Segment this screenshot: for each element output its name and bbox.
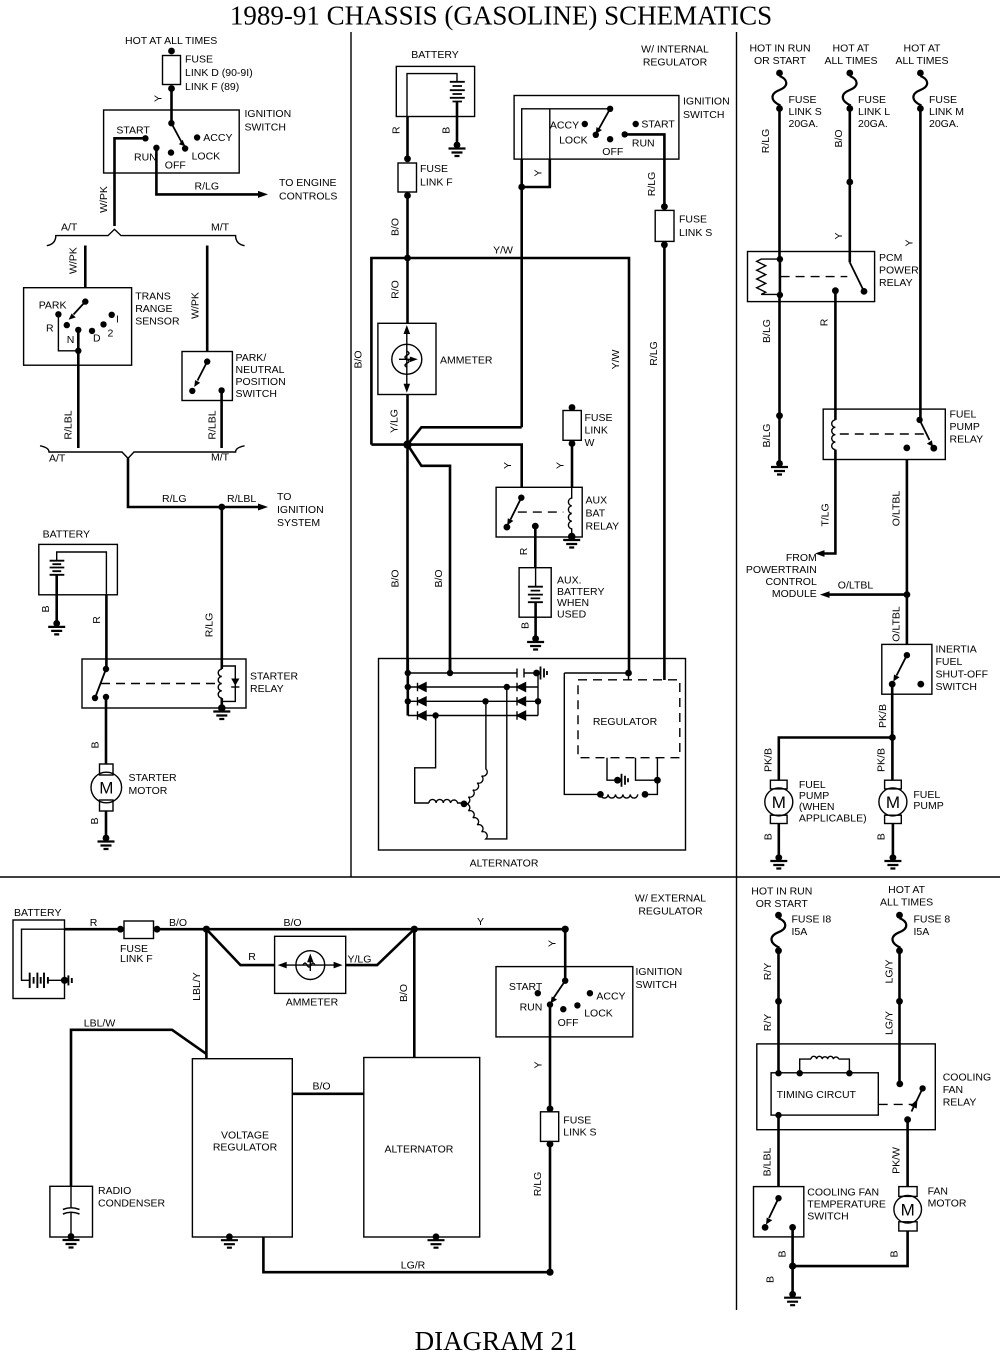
svg-text:RUN: RUN bbox=[134, 152, 157, 164]
svg-text:ALL TIMES: ALL TIMES bbox=[895, 55, 948, 67]
svg-text:WHEN: WHEN bbox=[557, 597, 589, 609]
svg-text:FUSE: FUSE bbox=[563, 1115, 591, 1127]
svg-text:R/LG: R/LG bbox=[195, 181, 220, 193]
svg-text:INERTIA: INERTIA bbox=[936, 644, 977, 656]
svg-text:Y/W: Y/W bbox=[610, 350, 622, 370]
svg-text:R/Y: R/Y bbox=[762, 1014, 774, 1032]
svg-text:OFF: OFF bbox=[558, 1017, 579, 1029]
svg-text:HOT AT: HOT AT bbox=[888, 884, 926, 896]
svg-text:LINK D (90-9I): LINK D (90-9I) bbox=[185, 67, 253, 79]
svg-text:PARK: PARK bbox=[39, 300, 67, 312]
svg-text:ACCY: ACCY bbox=[550, 120, 579, 132]
svg-text:M: M bbox=[99, 779, 113, 798]
svg-text:LG/R: LG/R bbox=[401, 1260, 426, 1272]
svg-text:LINK: LINK bbox=[585, 425, 608, 437]
svg-text:M: M bbox=[901, 1200, 915, 1219]
svg-text:IGNITION: IGNITION bbox=[245, 108, 292, 120]
svg-text:POWERTRAIN: POWERTRAIN bbox=[746, 564, 817, 576]
svg-text:B/O: B/O bbox=[312, 1081, 330, 1093]
svg-text:PUMP: PUMP bbox=[950, 421, 980, 433]
svg-text:SWITCH: SWITCH bbox=[683, 109, 724, 121]
svg-text:W/PK: W/PK bbox=[68, 247, 80, 274]
svg-text:POWER: POWER bbox=[879, 265, 919, 277]
svg-text:Y/LG: Y/LG bbox=[347, 954, 371, 966]
svg-text:HOT AT ALL TIMES: HOT AT ALL TIMES bbox=[125, 35, 217, 47]
svg-text:OFF: OFF bbox=[602, 146, 623, 158]
svg-text:B/O: B/O bbox=[353, 350, 365, 368]
svg-text:START: START bbox=[116, 125, 150, 137]
svg-text:SWITCH: SWITCH bbox=[936, 681, 977, 693]
svg-text:Y: Y bbox=[833, 232, 845, 239]
svg-text:T/LG: T/LG bbox=[820, 503, 832, 526]
svg-text:DIAGRAM 21: DIAGRAM 21 bbox=[415, 1326, 578, 1356]
svg-text:B: B bbox=[889, 1250, 901, 1257]
svg-text:PK/W: PK/W bbox=[891, 1147, 903, 1174]
svg-text:TIMING CIRCUT: TIMING CIRCUT bbox=[777, 1089, 857, 1101]
svg-text:1989-91 CHASSIS (GASOLINE) SCH: 1989-91 CHASSIS (GASOLINE) SCHEMATICS bbox=[230, 1, 772, 31]
svg-text:M: M bbox=[886, 793, 900, 812]
svg-text:I: I bbox=[116, 314, 119, 326]
svg-text:SHUT-OFF: SHUT-OFF bbox=[936, 669, 989, 681]
svg-text:R/O: R/O bbox=[390, 280, 402, 299]
svg-text:R: R bbox=[518, 547, 530, 555]
svg-text:Y: Y bbox=[502, 462, 514, 469]
svg-text:FUSE: FUSE bbox=[929, 94, 957, 106]
svg-text:B/LG: B/LG bbox=[761, 319, 773, 343]
svg-text:W/PK: W/PK bbox=[98, 186, 110, 213]
svg-text:VOLTAGE: VOLTAGE bbox=[221, 1130, 269, 1142]
svg-text:SWITCH: SWITCH bbox=[807, 1211, 848, 1223]
svg-text:NEUTRAL: NEUTRAL bbox=[236, 364, 285, 376]
svg-text:MOTOR: MOTOR bbox=[129, 785, 168, 797]
svg-text:PK/B: PK/B bbox=[763, 748, 775, 772]
svg-text:I5A: I5A bbox=[792, 926, 808, 938]
svg-text:FUEL: FUEL bbox=[936, 656, 963, 668]
svg-text:FAN: FAN bbox=[928, 1186, 948, 1198]
svg-text:B/O: B/O bbox=[833, 129, 845, 147]
svg-text:Y: Y bbox=[477, 916, 484, 928]
svg-text:FUSE: FUSE bbox=[420, 163, 448, 175]
svg-text:R/LBL: R/LBL bbox=[207, 410, 219, 439]
svg-text:M/T: M/T bbox=[211, 222, 230, 234]
svg-text:LINK M: LINK M bbox=[929, 106, 964, 118]
svg-text:BATTERY: BATTERY bbox=[14, 907, 61, 919]
svg-text:M: M bbox=[772, 793, 786, 812]
svg-text:RUN: RUN bbox=[520, 1002, 543, 1014]
svg-text:LOCK: LOCK bbox=[559, 135, 588, 147]
svg-text:RELAY: RELAY bbox=[950, 434, 984, 446]
svg-text:(WHEN: (WHEN bbox=[799, 801, 835, 813]
svg-text:Y/LG: Y/LG bbox=[389, 409, 401, 433]
svg-text:B: B bbox=[763, 833, 775, 840]
svg-text:BATTERY: BATTERY bbox=[411, 49, 458, 61]
svg-text:FUSE: FUSE bbox=[585, 412, 613, 424]
svg-text:CONDENSER: CONDENSER bbox=[98, 1197, 166, 1209]
svg-text:R/LG: R/LG bbox=[532, 1172, 544, 1197]
svg-text:COOLING FAN: COOLING FAN bbox=[807, 1187, 879, 1199]
svg-text:HOT IN RUN: HOT IN RUN bbox=[751, 886, 812, 898]
svg-text:R/LG: R/LG bbox=[646, 172, 658, 197]
svg-text:FUSE: FUSE bbox=[858, 94, 886, 106]
svg-text:TO: TO bbox=[277, 491, 291, 503]
svg-text:APPLICABLE): APPLICABLE) bbox=[799, 812, 867, 824]
svg-text:PK/B: PK/B bbox=[877, 704, 889, 728]
svg-text:W/PK: W/PK bbox=[190, 292, 202, 319]
svg-text:Y: Y bbox=[904, 239, 916, 246]
svg-text:R/LG: R/LG bbox=[162, 493, 187, 505]
svg-text:TEMPERATURE: TEMPERATURE bbox=[807, 1199, 886, 1211]
svg-text:Y/W: Y/W bbox=[493, 245, 513, 257]
svg-text:RADIO: RADIO bbox=[98, 1185, 131, 1197]
svg-text:I5A: I5A bbox=[914, 926, 930, 938]
svg-text:MODULE: MODULE bbox=[772, 588, 817, 600]
svg-text:Y: Y bbox=[153, 95, 165, 102]
svg-text:Y: Y bbox=[555, 462, 567, 469]
svg-text:AUX.: AUX. bbox=[557, 575, 582, 587]
svg-text:SWITCH: SWITCH bbox=[245, 122, 286, 134]
svg-text:FUSE I8: FUSE I8 bbox=[792, 914, 832, 926]
svg-text:IGNITION: IGNITION bbox=[683, 96, 730, 108]
svg-text:R/LBL: R/LBL bbox=[227, 493, 256, 505]
svg-text:LINK F (89): LINK F (89) bbox=[185, 81, 239, 93]
svg-text:USED: USED bbox=[557, 608, 587, 620]
svg-text:SWITCH: SWITCH bbox=[636, 979, 677, 991]
svg-text:B/O: B/O bbox=[169, 917, 187, 929]
svg-text:AUX: AUX bbox=[586, 495, 608, 507]
svg-text:FUSE: FUSE bbox=[679, 214, 707, 226]
svg-text:LINK L: LINK L bbox=[858, 106, 890, 118]
svg-text:SYSTEM: SYSTEM bbox=[277, 517, 320, 529]
svg-text:LINK S: LINK S bbox=[789, 106, 822, 118]
svg-text:OFF: OFF bbox=[165, 160, 186, 172]
svg-text:D: D bbox=[93, 333, 101, 345]
svg-text:FUEL: FUEL bbox=[950, 409, 977, 421]
svg-text:IGNITION: IGNITION bbox=[277, 504, 324, 516]
svg-text:SWITCH: SWITCH bbox=[236, 388, 277, 400]
svg-text:B: B bbox=[440, 127, 452, 134]
svg-text:AMMETER: AMMETER bbox=[440, 355, 493, 367]
svg-text:B/O: B/O bbox=[283, 917, 301, 929]
svg-text:LOCK: LOCK bbox=[192, 151, 221, 163]
svg-text:REGULATOR: REGULATOR bbox=[593, 716, 658, 728]
svg-text:RELAY: RELAY bbox=[250, 683, 284, 695]
svg-text:FAN: FAN bbox=[943, 1084, 963, 1096]
svg-text:RUN: RUN bbox=[632, 138, 655, 150]
svg-text:MOTOR: MOTOR bbox=[928, 1198, 967, 1210]
svg-text:STARTER: STARTER bbox=[250, 671, 298, 683]
svg-text:B: B bbox=[765, 1276, 777, 1283]
svg-text:RANGE: RANGE bbox=[135, 303, 172, 315]
svg-text:REGULATOR: REGULATOR bbox=[638, 906, 703, 918]
svg-text:BATTERY: BATTERY bbox=[43, 529, 90, 541]
svg-text:20GA.: 20GA. bbox=[789, 118, 819, 130]
svg-text:R/LBL: R/LBL bbox=[63, 410, 75, 439]
svg-text:PCM: PCM bbox=[879, 252, 902, 264]
svg-text:B/O: B/O bbox=[398, 984, 410, 1002]
svg-text:R/LG: R/LG bbox=[204, 613, 216, 638]
svg-text:LBL/Y: LBL/Y bbox=[191, 972, 203, 1001]
svg-text:ACCY: ACCY bbox=[203, 132, 232, 144]
svg-text:Y: Y bbox=[533, 169, 545, 176]
svg-text:B/LG: B/LG bbox=[761, 424, 773, 448]
svg-text:O/LTBL: O/LTBL bbox=[838, 580, 874, 592]
svg-text:RELAY: RELAY bbox=[586, 521, 620, 533]
svg-text:FUSE: FUSE bbox=[789, 94, 817, 106]
svg-text:R: R bbox=[91, 616, 103, 624]
svg-text:RELAY: RELAY bbox=[879, 277, 913, 289]
svg-text:W: W bbox=[585, 437, 595, 449]
svg-text:LG/Y: LG/Y bbox=[884, 960, 896, 984]
svg-text:IGNITION: IGNITION bbox=[636, 966, 683, 978]
svg-text:LINK F: LINK F bbox=[420, 177, 453, 189]
svg-text:PARK/: PARK/ bbox=[236, 352, 267, 364]
svg-text:B: B bbox=[89, 817, 101, 824]
svg-text:FUSE: FUSE bbox=[185, 54, 213, 66]
svg-text:PUMP: PUMP bbox=[799, 790, 829, 802]
svg-text:R/LG: R/LG bbox=[760, 129, 772, 154]
svg-text:B/O: B/O bbox=[433, 569, 445, 587]
svg-text:ALTERNATOR: ALTERNATOR bbox=[470, 858, 539, 870]
svg-text:M/T: M/T bbox=[211, 452, 230, 464]
svg-text:B: B bbox=[90, 741, 102, 748]
svg-text:B: B bbox=[520, 622, 532, 629]
svg-text:BAT: BAT bbox=[586, 508, 606, 520]
svg-text:REGULATOR: REGULATOR bbox=[643, 57, 708, 69]
svg-text:O/LTBL: O/LTBL bbox=[891, 491, 903, 527]
svg-text:HOT AT: HOT AT bbox=[833, 43, 871, 55]
svg-text:R: R bbox=[90, 917, 98, 929]
svg-text:LOCK: LOCK bbox=[584, 1008, 613, 1020]
svg-text:LINK S: LINK S bbox=[563, 1127, 596, 1139]
svg-text:R: R bbox=[819, 318, 831, 326]
svg-text:STARTER: STARTER bbox=[129, 772, 177, 784]
svg-text:O/LTBL: O/LTBL bbox=[891, 606, 903, 642]
svg-text:ACCY: ACCY bbox=[596, 991, 625, 1003]
svg-text:R/Y: R/Y bbox=[762, 963, 774, 981]
svg-text:B: B bbox=[777, 1250, 789, 1257]
svg-text:A/T: A/T bbox=[61, 222, 78, 234]
svg-text:HOT AT: HOT AT bbox=[904, 43, 942, 55]
svg-text:LG/Y: LG/Y bbox=[884, 1011, 896, 1035]
svg-text:TRANS: TRANS bbox=[135, 291, 171, 303]
svg-text:HOT IN RUN: HOT IN RUN bbox=[749, 43, 810, 55]
svg-text:20GA.: 20GA. bbox=[929, 118, 959, 130]
svg-text:POSITION: POSITION bbox=[236, 376, 286, 388]
svg-text:LBL/W: LBL/W bbox=[84, 1018, 116, 1030]
svg-text:CONTROLS: CONTROLS bbox=[279, 191, 337, 203]
svg-text:AMMETER: AMMETER bbox=[286, 997, 339, 1009]
svg-text:PUMP: PUMP bbox=[913, 800, 943, 812]
svg-text:A/T: A/T bbox=[49, 453, 66, 465]
svg-text:Y: Y bbox=[547, 940, 559, 947]
svg-text:20GA.: 20GA. bbox=[858, 118, 888, 130]
svg-text:CONTROL: CONTROL bbox=[765, 576, 816, 588]
svg-text:TO ENGINE: TO ENGINE bbox=[279, 177, 337, 189]
svg-text:ALL TIMES: ALL TIMES bbox=[880, 897, 933, 909]
svg-text:START: START bbox=[641, 119, 675, 131]
svg-text:R: R bbox=[248, 951, 256, 963]
svg-text:FUSE 8: FUSE 8 bbox=[914, 914, 951, 926]
svg-text:FROM: FROM bbox=[786, 552, 817, 564]
svg-text:Y: Y bbox=[533, 1061, 545, 1068]
svg-text:B: B bbox=[40, 605, 52, 612]
svg-text:REGULATOR: REGULATOR bbox=[213, 1142, 278, 1154]
svg-text:W/ INTERNAL: W/ INTERNAL bbox=[641, 44, 709, 56]
svg-text:R/LG: R/LG bbox=[648, 341, 660, 366]
svg-text:BATTERY: BATTERY bbox=[557, 586, 604, 598]
svg-text:R: R bbox=[46, 323, 54, 335]
svg-text:B/O: B/O bbox=[390, 218, 402, 236]
svg-text:B/O: B/O bbox=[390, 569, 402, 587]
svg-text:LINK F: LINK F bbox=[120, 953, 153, 965]
svg-text:ALL TIMES: ALL TIMES bbox=[824, 55, 877, 67]
svg-text:RELAY: RELAY bbox=[943, 1097, 977, 1109]
svg-text:B/LBL: B/LBL bbox=[762, 1148, 774, 1177]
svg-text:COOLING: COOLING bbox=[943, 1072, 991, 1084]
svg-text:LINK S: LINK S bbox=[679, 227, 712, 239]
svg-text:OR START: OR START bbox=[754, 55, 807, 67]
svg-text:FUEL: FUEL bbox=[799, 779, 826, 791]
svg-text:OR START: OR START bbox=[756, 898, 809, 910]
svg-text:SENSOR: SENSOR bbox=[135, 316, 180, 328]
svg-text:2: 2 bbox=[108, 328, 114, 340]
svg-text:R: R bbox=[391, 126, 403, 134]
svg-text:PK/B: PK/B bbox=[876, 748, 888, 772]
svg-text:B: B bbox=[875, 833, 887, 840]
svg-text:ALTERNATOR: ALTERNATOR bbox=[384, 1144, 453, 1156]
svg-text:W/ EXTERNAL: W/ EXTERNAL bbox=[635, 893, 706, 905]
svg-text:N: N bbox=[67, 334, 75, 346]
